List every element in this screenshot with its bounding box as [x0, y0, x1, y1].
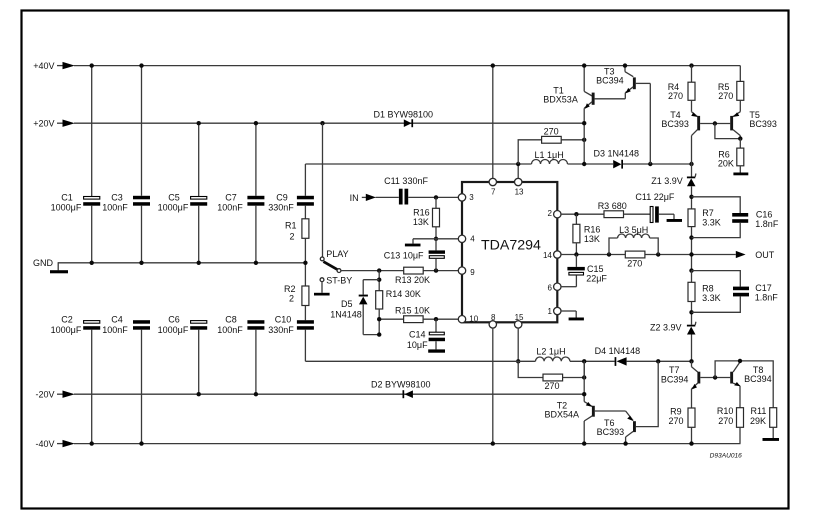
- zener Z1 3.9V: [651, 164, 696, 209]
- transistor T2 BDX54A: [545, 361, 626, 446]
- svg-text:Z1 3.9V: Z1 3.9V: [651, 176, 683, 186]
- wire C10 to pin15 (y=361): [305, 360, 535, 362]
- wire T7/T8 base to R11: [713, 359, 773, 408]
- resistor R9: [669, 406, 696, 446]
- -20V rail: [35, 390, 584, 400]
- pin 1: [554, 307, 561, 314]
- pin 4: [458, 235, 465, 242]
- resistor 270 (L2 parallel): [518, 361, 586, 391]
- svg-text:3: 3: [469, 193, 474, 202]
- wire pin8 to -40V: [491, 328, 495, 446]
- svg-text:R7: R7: [702, 208, 714, 218]
- resistor R1: [285, 219, 309, 263]
- transistor T7 BC394: [661, 361, 730, 408]
- svg-text:7: 7: [491, 187, 496, 196]
- capacitor C5: [158, 123, 208, 263]
- svg-text:2: 2: [289, 294, 294, 304]
- svg-text:L1 1μH: L1 1μH: [535, 150, 564, 160]
- capacitor C3: [102, 66, 150, 263]
- svg-text:D5: D5: [341, 299, 353, 309]
- capacitor C2: [51, 314, 101, 443]
- wire pin2 node: [561, 212, 604, 216]
- svg-text:6: 6: [547, 283, 552, 292]
- pin 15: [515, 321, 522, 328]
- capacitor C16: [692, 197, 779, 238]
- transistor T1 BDX53A: [543, 63, 625, 166]
- svg-text:100nF: 100nF: [217, 203, 243, 213]
- -40V rail: [35, 439, 740, 449]
- wire T4/T5 base to R6: [713, 121, 743, 141]
- pin 8: [489, 321, 496, 328]
- svg-text:100nF: 100nF: [102, 325, 128, 335]
- svg-text:3.3K: 3.3K: [702, 293, 721, 303]
- svg-text:D4 1N4148: D4 1N4148: [595, 346, 641, 356]
- resistor R14: [376, 271, 421, 335]
- svg-text:C10: C10: [275, 314, 292, 324]
- svg-text:270: 270: [668, 91, 683, 101]
- svg-text:TDA7294: TDA7294: [481, 238, 541, 254]
- svg-text:1.8nF: 1.8nF: [755, 292, 779, 302]
- wire pin7 to +40V: [491, 63, 495, 178]
- transistor T3 BC394: [596, 63, 650, 164]
- pin 9: [458, 267, 465, 274]
- diode D1: [374, 110, 434, 128]
- svg-text:C7: C7: [225, 192, 237, 202]
- svg-text:29K: 29K: [750, 416, 766, 426]
- svg-text:R16: R16: [413, 208, 430, 218]
- svg-text:1000μF: 1000μF: [51, 203, 82, 213]
- svg-text:IN: IN: [350, 193, 359, 203]
- svg-text:BC394: BC394: [596, 75, 624, 85]
- svg-text:10μF: 10μF: [407, 340, 428, 350]
- svg-text:13: 13: [515, 187, 524, 196]
- svg-text:C8: C8: [225, 314, 237, 324]
- output arrow OUT: [736, 250, 775, 260]
- transistor T4 BC393: [661, 110, 730, 164]
- svg-text:D1 BYW98100: D1 BYW98100: [374, 110, 434, 120]
- svg-text:1.8nF: 1.8nF: [755, 219, 779, 229]
- svg-text:100nF: 100nF: [217, 325, 243, 335]
- GND rail: [33, 258, 305, 273]
- switch PLAY/ST-BY: [314, 123, 379, 295]
- resistor R2: [284, 263, 309, 320]
- resistor R11: [750, 406, 779, 441]
- svg-text:C11 330nF: C11 330nF: [384, 176, 428, 186]
- svg-text:D2 BYW98100: D2 BYW98100: [371, 380, 431, 390]
- svg-text:C4: C4: [111, 314, 123, 324]
- svg-text:C6: C6: [168, 314, 180, 324]
- svg-text:PLAY: PLAY: [326, 249, 348, 259]
- svg-text:9: 9: [470, 268, 475, 277]
- svg-text:+20V: +20V: [33, 119, 54, 129]
- svg-text:1000μF: 1000μF: [158, 203, 189, 213]
- svg-text:270: 270: [669, 416, 684, 426]
- svg-text:2: 2: [547, 209, 552, 218]
- svg-text:BC393: BC393: [749, 119, 777, 129]
- svg-text:270: 270: [627, 258, 642, 268]
- resistor R3 680: [598, 201, 650, 218]
- svg-text:270: 270: [544, 381, 559, 391]
- resistor R13: [395, 267, 430, 285]
- svg-text:270: 270: [718, 416, 733, 426]
- svg-text:R13 20K: R13 20K: [395, 275, 430, 285]
- svg-text:20K: 20K: [718, 159, 734, 169]
- resistor R4: [668, 63, 695, 111]
- svg-text:R9: R9: [670, 406, 682, 416]
- svg-text:Z2 3.9V: Z2 3.9V: [650, 323, 682, 333]
- capacitor C11 22uF: [635, 192, 682, 222]
- svg-text:ST-BY: ST-BY: [326, 276, 352, 286]
- svg-text:BC394: BC394: [661, 374, 689, 384]
- svg-text:R8: R8: [702, 283, 714, 293]
- capacitor C1: [51, 66, 101, 263]
- svg-text:BC394: BC394: [744, 374, 772, 384]
- svg-text:3.3K: 3.3K: [702, 218, 721, 228]
- svg-text:C9: C9: [276, 192, 288, 202]
- svg-text:L3 5μH: L3 5μH: [619, 225, 648, 235]
- capacitor C11 330nF: [384, 176, 461, 205]
- transistor T5 BC393: [730, 110, 777, 139]
- svg-text:L2 1μH: L2 1μH: [536, 346, 565, 356]
- svg-text:-40V: -40V: [35, 439, 54, 449]
- svg-text:330nF: 330nF: [268, 203, 294, 213]
- junction dots on rails: [90, 63, 325, 445]
- wire bootstrap C9 to pin13 (y=164): [305, 162, 531, 179]
- svg-text:1000μF: 1000μF: [158, 325, 189, 335]
- resistor R16 (pin2-pin14): [573, 214, 601, 254]
- svg-text:D3 1N4148: D3 1N4148: [594, 149, 640, 159]
- svg-text:270: 270: [718, 91, 733, 101]
- transistor T8 BC394: [730, 361, 771, 408]
- resistor R8: [688, 268, 721, 324]
- svg-text:14: 14: [543, 251, 552, 260]
- resistor 270 (L3 parallel): [625, 251, 645, 268]
- diode D3: [594, 149, 694, 169]
- pin 6: [554, 283, 561, 290]
- input IN: [350, 193, 399, 203]
- zener Z2 3.9V: [650, 322, 696, 362]
- ground at pin 1: [561, 311, 584, 320]
- ground at pin 4 node: [405, 239, 461, 247]
- svg-text:BC393: BC393: [661, 119, 689, 129]
- pin 3: [458, 194, 465, 201]
- svg-text:BDX54A: BDX54A: [545, 410, 580, 420]
- svg-text:+40V: +40V: [33, 61, 54, 71]
- svg-text:R2: R2: [284, 284, 296, 294]
- node line pin9/R13: [377, 268, 461, 272]
- diode D4: [595, 346, 694, 366]
- svg-text:4: 4: [470, 235, 475, 244]
- capacitor C14: [407, 319, 445, 352]
- svg-text:C11 22μF: C11 22μF: [635, 192, 675, 202]
- inductor L1 1uH: [532, 150, 614, 164]
- capacitor C6: [158, 314, 208, 394]
- svg-text:C3: C3: [111, 192, 123, 202]
- capacitor C10: [268, 314, 314, 361]
- svg-text:GND: GND: [33, 258, 54, 268]
- pin 10: [458, 316, 465, 323]
- svg-text:BC393: BC393: [597, 427, 625, 437]
- diode D2: [371, 380, 431, 399]
- svg-text:BDX53A: BDX53A: [543, 95, 578, 105]
- resistor R10: [717, 406, 744, 444]
- svg-text:1: 1: [547, 307, 552, 316]
- wire pin15 to L2 node: [516, 328, 520, 363]
- svg-text:100nF: 100nF: [102, 203, 128, 213]
- svg-text:2: 2: [289, 231, 294, 241]
- pin 7: [489, 178, 496, 185]
- capacitor C17: [692, 271, 779, 313]
- svg-text:D93AU016: D93AU016: [710, 452, 743, 459]
- pin 2: [554, 211, 561, 218]
- svg-text:13K: 13K: [584, 234, 600, 244]
- resistor R15: [377, 305, 461, 322]
- capacitor C15: [561, 255, 607, 287]
- capacitor C9: [268, 164, 314, 219]
- svg-text:330nF: 330nF: [268, 325, 294, 335]
- svg-text:C1: C1: [61, 192, 73, 202]
- svg-text:OUT: OUT: [755, 250, 775, 260]
- capacitor C4: [102, 314, 150, 443]
- svg-text:C5: C5: [168, 192, 180, 202]
- svg-text:C15: C15: [587, 264, 604, 274]
- svg-text:R14 30K: R14 30K: [386, 289, 421, 299]
- IC U1 TDA7294: [462, 182, 557, 323]
- resistor R6: [718, 139, 748, 176]
- svg-text:C14: C14: [409, 330, 426, 340]
- svg-text:13K: 13K: [413, 217, 429, 227]
- resistor R7: [688, 208, 721, 271]
- +20V rail: [33, 119, 584, 129]
- pin 14: [554, 251, 561, 258]
- svg-text:R3 680: R3 680: [598, 201, 627, 211]
- wire pin14/OUT line: [561, 252, 736, 256]
- svg-text:270: 270: [544, 126, 559, 136]
- capacitor C13: [384, 239, 445, 271]
- svg-text:R1: R1: [285, 221, 297, 231]
- transistor T6 BC393: [597, 361, 659, 446]
- svg-text:22μF: 22μF: [586, 274, 607, 284]
- inductor L2 1uH: [536, 346, 615, 363]
- svg-text:1000μF: 1000μF: [51, 325, 82, 335]
- svg-text:R10: R10: [717, 406, 734, 416]
- svg-text:R11: R11: [751, 406, 767, 416]
- resistor 270 (L1 parallel): [518, 126, 586, 164]
- resistor R5: [718, 66, 744, 112]
- pin 13: [515, 178, 522, 185]
- svg-text:R15 10K: R15 10K: [395, 305, 430, 315]
- svg-text:R16: R16: [584, 225, 601, 235]
- +40V rail: [33, 61, 740, 71]
- inductor L3 5uH: [609, 225, 658, 255]
- svg-text:C2: C2: [61, 314, 73, 324]
- svg-text:C13 10μF: C13 10μF: [384, 251, 424, 261]
- diode D5: [330, 280, 381, 337]
- svg-text:1N4148: 1N4148: [330, 310, 362, 320]
- capacitor C7: [217, 123, 264, 263]
- resistor R16 (input): [413, 197, 440, 241]
- svg-text:-20V: -20V: [35, 390, 54, 400]
- svg-text:10: 10: [469, 314, 478, 323]
- capacitor C8: [217, 314, 264, 394]
